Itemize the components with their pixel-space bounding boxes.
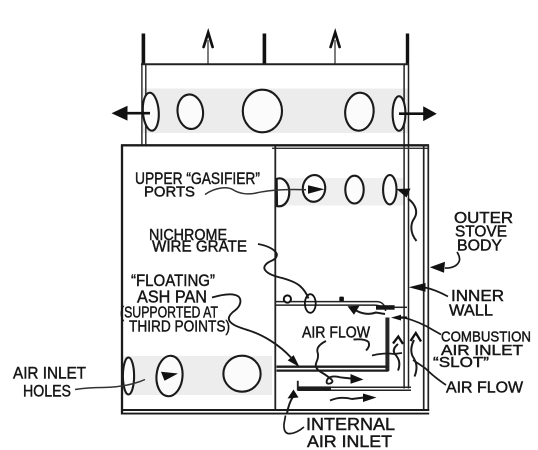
outer body left wall [121, 145, 123, 415]
flame arrow up left [204, 33, 213, 64]
leader squiggle: air flow 1 down to loop arrow [316, 341, 351, 384]
grate support circle 1 [284, 295, 291, 302]
secondary air hole 2 [176, 93, 205, 130]
bottom air plate (double line with left lip) [298, 386, 412, 388]
ledge from grate to inner wall [394, 306, 408, 308]
svg-text:AIR FLOW: AIR FLOW [446, 380, 524, 397]
bottom air hole 1 [123, 358, 134, 395]
leader: upper gasifier ports [205, 188, 306, 195]
svg-text:WALL: WALL [449, 303, 493, 320]
svg-text:HOLES: HOLES [23, 383, 71, 401]
outer body bottom (double) [121, 409, 429, 411]
leader: outer stove body [445, 252, 460, 268]
secondary air stripe (top band) [143, 89, 408, 134]
outer body top [121, 144, 429, 146]
hook stroke under FLOW [354, 339, 370, 350]
svg-text:THIRD POINTS): THIRD POINTS) [129, 319, 230, 336]
svg-text:AIR FLOW: AIR FLOW [302, 325, 370, 342]
up airflow arrow in channel [394, 344, 400, 371]
leader: combustion air inlet slot [404, 318, 441, 335]
inner cylinder top rim [141, 63, 409, 65]
svg-text:ASH PAN: ASH PAN [137, 287, 207, 307]
nichrome wire grate (double line with right bend) [276, 302, 386, 311]
inner cylinder left wall (double) [141, 64, 143, 146]
bottom air hole 3 [223, 356, 260, 392]
up airflow arrow between walls [411, 340, 416, 377]
inner wall right (double, runs from top band down to bottom plate) [403, 64, 405, 389]
left heat out arrow [126, 112, 150, 115]
gasifier port 3 [345, 176, 363, 204]
svg-text:INTERNAL: INTERNAL [306, 414, 395, 434]
cutaway division line [274, 146, 276, 409]
leader: air inlet holes [75, 380, 145, 390]
secondary air hole 5 [393, 96, 406, 131]
internal air inlet up arrow [287, 397, 293, 414]
outer body right wall (double) [423, 145, 425, 412]
svg-text:BODY: BODY [457, 238, 502, 255]
svg-text:AIR INLET: AIR INLET [307, 432, 392, 450]
secondary air hole 3 (large circle) [243, 90, 282, 133]
svg-text:WIRE GRATE: WIRE GRATE [152, 239, 247, 256]
flame arrow up right [331, 33, 340, 64]
svg-text:AIR INLET: AIR INLET [13, 364, 86, 383]
gasifier port 1 [277, 178, 290, 206]
leader: inner wall [425, 288, 448, 297]
leader: floating ash pan [212, 294, 291, 357]
combustion slot lip (dark bar under grate) [376, 305, 395, 310]
air channel vertical wall [385, 318, 389, 372]
leader: internal air inlet [284, 416, 304, 434]
gasifier port 2 [301, 174, 326, 203]
bottom air plate left dark segment [298, 386, 331, 390]
floating ash pan (thick double line) [277, 366, 389, 368]
secondary air hole 1 [142, 92, 160, 131]
air flow arrow under grate toward slot [356, 311, 385, 315]
bottom air hole 2 [155, 355, 184, 398]
leader: nichrome wire grate [258, 244, 309, 299]
pot support left [142, 34, 146, 65]
svg-text:“SLOT”: “SLOT” [433, 354, 489, 371]
gasifier ports stripe [276, 178, 404, 206]
grate support block 3 [339, 297, 344, 302]
bottom air inlet stripe [124, 356, 273, 395]
pot support middle [263, 34, 267, 65]
secondary air hole 4 [344, 92, 376, 132]
svg-text:PORTS: PORTS [144, 185, 195, 201]
pot support right [406, 34, 409, 65]
gasifier port 4 [383, 175, 396, 204]
leader: air flow (right, between walls) [413, 360, 446, 385]
curvy arrow at right port [408, 199, 417, 242]
bottom right flow arrow [330, 398, 364, 401]
grate support oval 2 [305, 294, 316, 313]
right heat out arrow [399, 112, 424, 115]
